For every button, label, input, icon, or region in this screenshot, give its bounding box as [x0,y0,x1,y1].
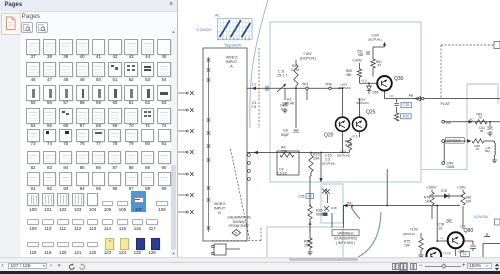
svg-text:INPUT: INPUT [226,60,238,64]
svg-text:47: 47 [378,64,382,68]
svg-text:L1: L1 [252,83,256,87]
svg-text:(DCPL#): (DCPL#) [403,232,415,236]
svg-text:(DCPL#1): (DCPL#1) [322,162,335,166]
svg-text:D78: D78 [441,189,447,193]
svg-text:R35: R35 [403,114,409,118]
svg-text:0.2V/DIV: 0.2V/DIV [474,215,489,219]
svg-text:7.5: 7.5 [251,105,256,109]
svg-text:Q80: Q80 [464,228,474,234]
svg-text:TP1: TP1 [302,83,309,87]
svg-text:+10V: +10V [457,186,466,190]
svg-text:AB: AB [409,93,413,97]
svg-text:56: 56 [480,129,484,133]
svg-text:AC: AC [470,117,474,121]
svg-text:(DCPL#1): (DCPL#1) [356,101,369,105]
svg-text:GAIN: GAIN [447,165,455,169]
svg-text:50μF: 50μF [281,133,290,137]
svg-text:( WITH 50Ω ): ( WITH 50Ω ) [336,241,355,245]
svg-text:FLAT: FLAT [441,101,451,106]
svg-text:INPUT: INPUT [214,207,226,211]
svg-text:Q30: Q30 [394,76,404,82]
svg-text:DX: DX [390,94,394,98]
svg-text:7K: 7K [479,115,483,119]
svg-text:.01: .01 [438,227,443,231]
svg-text:+100V: +100V [352,59,363,63]
svg-text:IRE: IRE [446,121,451,125]
svg-text:(CONCENTRIC): (CONCENTRIC) [334,236,357,240]
svg-text:B: B [218,211,221,215]
svg-text:84μ: 84μ [485,149,490,153]
svg-text:0.1: 0.1 [281,108,286,112]
svg-text:C25: C25 [299,195,305,199]
svg-text:45K: 45K [346,73,353,77]
svg-text:(DCPL#1): (DCPL#1) [300,56,316,60]
svg-text:TP8: TP8 [325,83,332,87]
svg-text:1.5-5.6: 1.5-5.6 [277,172,287,176]
svg-text:C18: C18 [331,206,337,210]
svg-text:A: A [230,65,233,69]
svg-text:+0.6: +0.6 [351,135,358,139]
svg-text:5: 5 [235,231,237,235]
svg-text:C85: C85 [458,250,464,254]
svg-text:18: 18 [308,194,312,198]
svg-text:1K: 1K [476,147,480,151]
svg-text:+0.06: +0.06 [443,252,451,256]
svg-text:4.7K: 4.7K [345,144,353,148]
svg-text:FROM R407: FROM R407 [229,224,249,228]
svg-text:XA: XA [347,202,352,206]
svg-text:+100V: +100V [426,186,437,190]
svg-text:1 2 3 4 5 6 7 8 9: 1 2 3 4 5 6 7 8 9 [218,36,250,40]
svg-text:15A: 15A [313,157,320,161]
svg-text:Q20: Q20 [324,133,334,139]
svg-text:(DCPL#1): (DCPL#1) [368,38,382,42]
svg-text:(DCPL#1): (DCPL#1) [338,86,351,90]
svg-text:+7.6: +7.6 [459,225,466,229]
svg-text:AC: AC [215,14,220,18]
svg-text:150: 150 [304,244,310,248]
svg-text:50μS/DIV: 50μS/DIV [225,43,243,48]
svg-text:500: 500 [316,213,322,217]
svg-text:.25-1.7: .25-1.7 [276,74,287,78]
svg-text:(DCPL#1): (DCPL#1) [337,154,350,158]
svg-text:10K: 10K [404,244,411,248]
svg-text:1K: 1K [425,200,430,204]
svg-text:2.7M: 2.7M [291,68,299,72]
svg-text:10K: 10K [466,200,473,204]
svg-text:+10V: +10V [410,228,419,232]
svg-text:D55: D55 [373,91,379,95]
svg-text:0.2V/DIV: 0.2V/DIV [197,28,213,32]
svg-text:15A: 15A [281,150,288,154]
svg-text:550: 550 [358,53,364,57]
svg-text:VIDEO: VIDEO [214,202,226,206]
svg-text:VARIABLE: VARIABLE [337,231,354,235]
svg-text:C35: C35 [403,103,409,107]
svg-text:CHROMA: CHROMA [447,139,462,143]
svg-text:VIDEO: VIDEO [226,56,238,60]
svg-text:+5.5: +5.5 [361,79,368,83]
svg-text:Q25: Q25 [366,110,376,116]
svg-text:+7: +7 [440,236,444,240]
